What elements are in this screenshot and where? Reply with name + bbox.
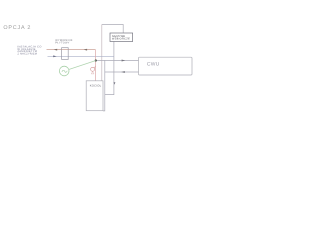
svg-text:CWU: CWU — [147, 61, 160, 67]
svg-text:WZBIORCZE: WZBIORCZE — [112, 38, 130, 41]
svg-text:PŁYTOWY: PŁYTOWY — [55, 41, 70, 44]
svg-text:Z NACZYNIEM: Z NACZYNIEM — [17, 52, 37, 55]
svg-text:KOCIOŁ: KOCIOŁ — [90, 84, 102, 87]
svg-text:OPCJA 2: OPCJA 2 — [3, 25, 31, 31]
